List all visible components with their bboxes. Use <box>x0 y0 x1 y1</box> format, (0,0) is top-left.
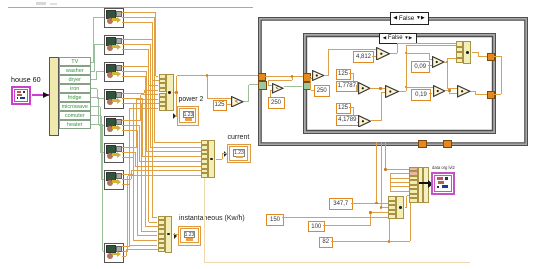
wire 250 to comparison outer <box>270 90 271 97</box>
junction drop 2 <box>380 206 383 209</box>
build array 4 <box>388 196 405 219</box>
wire appliance microwave to subVI 6 <box>91 106 101 107</box>
wire cluster house to appliance list <box>32 94 49 96</box>
numeric constant 100 <box>308 221 325 232</box>
wire instantaneous subVI 1 to build array 3 <box>122 22 153 23</box>
wire add E rising trunk <box>399 91 407 92</box>
wire divide A to multiply B <box>324 75 329 76</box>
subVI house 60 label <box>11 76 41 84</box>
wire 347,7 to build array 4 <box>351 203 388 204</box>
junction 82 wire <box>388 240 391 243</box>
subVI appliance model 1 <box>104 8 124 28</box>
case selector label outer False <box>390 12 429 25</box>
comparison function less than <box>231 96 244 108</box>
wire tunnel to divide A <box>309 76 311 77</box>
wire power subVI 6 to build array 1 <box>122 147 137 148</box>
wire instantaneous subVI 5 to build array 3 <box>122 130 137 131</box>
numeric constant 4,1789 <box>336 115 360 127</box>
label instantaneous <box>179 215 245 223</box>
label current <box>228 134 250 142</box>
junction E trunk lower <box>405 86 408 89</box>
wire 82 branch to build array 4 <box>389 219 390 241</box>
wire G junction down to add I <box>447 62 448 89</box>
subVI appliance model 3 <box>104 62 124 82</box>
junction C output <box>379 87 382 90</box>
subVI appliance model 6 <box>104 143 124 163</box>
wire 4,1789 to multiply D <box>356 122 359 123</box>
wire build array 3 to indicator <box>173 234 178 235</box>
wire power subVI 7 to build array 1 <box>122 174 133 175</box>
build array 1 power <box>159 74 175 111</box>
wire current subVI 6 to build array 2 <box>122 152 135 153</box>
toolbar icon smudge <box>36 2 46 5</box>
wire trunk to multiply G <box>406 53 429 54</box>
label power 2 <box>179 96 204 104</box>
string constant microwave <box>59 102 91 111</box>
wire power subVI 1 to build array 1 <box>122 12 156 13</box>
selector terminal outer case <box>258 81 267 90</box>
tunnel build array F out <box>487 53 496 62</box>
wire case bottom drop 2 <box>381 142 382 208</box>
wire 125 to multiply C <box>349 73 353 74</box>
numeric constant 0,19 <box>411 89 431 102</box>
string constant TV <box>59 57 91 66</box>
wire 1,7787 to multiply C <box>355 85 358 86</box>
add function E <box>385 85 399 98</box>
junction E trunk upper <box>405 52 408 55</box>
string constant comuter <box>59 111 91 120</box>
wire multiply B to build array F <box>390 53 397 54</box>
numeric constant 82 <box>319 237 334 248</box>
wire tunnel to inner case <box>265 76 303 77</box>
junction H output <box>448 89 451 92</box>
wire current subVI 5 to build array 2 <box>122 125 139 126</box>
wire instantaneous subVI 2 to build array 3 <box>122 49 149 50</box>
numeric constant 4,812 <box>353 51 374 63</box>
subVI appliance model 8 <box>104 243 124 263</box>
numeric constant 150 <box>266 214 284 226</box>
comparison function outer case <box>272 83 284 94</box>
toolbar edge line <box>8 7 253 9</box>
multiply function C <box>358 82 371 95</box>
wire power subVI 5 to build array 1 <box>122 120 141 121</box>
build array 3 instantaneous <box>158 216 173 253</box>
subVI appliance model 2 <box>104 35 124 55</box>
junction 100 wire <box>369 211 372 214</box>
junction G output <box>446 61 449 64</box>
subVI data org lvl2 <box>431 172 455 195</box>
wire comparison to inner selector <box>284 86 303 87</box>
tunnel power into outer case <box>258 73 267 82</box>
wire appliance comuter to subVI 7 <box>91 115 102 116</box>
wire add I to tunnel <box>471 91 476 92</box>
arrow bundle to subVI <box>419 182 428 184</box>
wire appliance iron to subVI 4 <box>91 88 98 89</box>
wire build array 1 output <box>174 92 177 93</box>
wire appliance washer to subVI 2 <box>91 71 95 72</box>
wire instantaneous subVI 4 to build array 3 <box>122 103 141 104</box>
wire appliance dryer to subVI 3 <box>91 79 97 80</box>
wire power subVI 8 to build array 1 <box>122 246 129 247</box>
tunnel case bottom 2 <box>443 140 453 149</box>
wire stubs into bundle <box>390 174 391 192</box>
wire trunk to multiply H <box>406 87 433 88</box>
wire power subVI 4 to build array 1 <box>122 93 144 94</box>
wire instantaneous subVI 8 to build array 3 <box>122 256 126 257</box>
wire case bottom drop 3 <box>385 142 386 170</box>
svg-text:<: < <box>276 86 279 92</box>
wire 100 to build array 4 <box>323 225 371 226</box>
wire 250 to divide A <box>311 90 314 91</box>
numeric constant 0,09 <box>411 61 431 73</box>
wire power subVI 3 to build array 1 <box>122 66 148 67</box>
wire case bottom drop 1 <box>376 142 377 204</box>
divide function A <box>312 70 325 81</box>
subVI appliance model 4 <box>104 89 124 109</box>
wire multiply H to add I <box>445 90 450 91</box>
build array F <box>456 41 472 64</box>
wire multiply D to add E <box>371 120 382 121</box>
wire multiply C to add E <box>370 88 385 89</box>
add function I <box>457 85 471 98</box>
tunnel power into inner case <box>303 73 312 82</box>
wire appliance heater to subVI 8 <box>91 124 103 125</box>
numeric constant 125 c <box>336 103 351 114</box>
wire current subVI 8 to build array 2 <box>122 251 128 252</box>
bundle cluster <box>409 167 429 203</box>
wire branch to comparison in outer case <box>292 77 293 81</box>
wire instantaneous subVI 7 to build array 3 <box>122 184 130 185</box>
wire 150 to build array 4 <box>282 217 388 218</box>
junction build array 1 output <box>175 91 178 94</box>
multiply function H <box>433 85 446 97</box>
string constant heater <box>59 120 91 129</box>
indicator current <box>227 144 251 163</box>
numeric constant 250 inner <box>314 85 331 97</box>
wire build array F to tunnel <box>472 52 479 53</box>
wire power subVI 2 to build array 1 <box>122 39 152 40</box>
junction drop 3 <box>384 168 387 171</box>
junction 347,7 wire <box>375 202 378 205</box>
array index column <box>49 57 60 136</box>
wire joining right tunnels <box>494 56 501 57</box>
svg-text:<: < <box>235 99 238 105</box>
junction inside outer case <box>291 75 294 78</box>
wire 0,09 to multiply G <box>428 65 432 66</box>
wire current subVI 2 to build array 2 <box>122 44 150 45</box>
subVI appliance model 7 <box>104 170 124 190</box>
case selector label inner False <box>379 33 417 45</box>
wire junction to comparison <box>207 76 208 99</box>
string constant fridge <box>59 93 91 102</box>
subVI house 60 <box>11 86 31 105</box>
indicator instantaneous <box>178 226 202 246</box>
label data org lvl2 <box>432 165 455 170</box>
selector terminal inner case <box>303 82 311 91</box>
string constant washer <box>59 66 91 75</box>
wire multiply G output <box>445 62 448 63</box>
wire instantaneous subVI 6 to build array 3 <box>122 157 134 158</box>
wire current subVI 1 to build array 2 <box>122 17 154 18</box>
tunnel case bottom 1 <box>418 140 428 149</box>
numeric constant 250 outer <box>268 97 285 109</box>
wire appliance TV to subVI 1 <box>91 62 94 63</box>
numeric constant 125 b <box>336 69 351 80</box>
junction on power wire <box>206 74 209 77</box>
wire drop2 to build array 4 <box>381 207 388 208</box>
case structure inner <box>303 33 496 134</box>
wire current subVI 4 to build array 2 <box>122 98 143 99</box>
string constant iron <box>59 84 91 93</box>
wire 125 to comparison <box>226 104 231 105</box>
numeric constant 1,7787 <box>336 81 359 92</box>
subVI appliance model 5 <box>104 116 124 136</box>
wire comparison to case selector <box>244 101 249 102</box>
wire 0,19 to multiply H <box>429 93 432 94</box>
multiply function B <box>376 47 390 61</box>
string constant dryer <box>59 75 91 84</box>
multiply function G <box>432 56 445 68</box>
wire build array 4 to bundle <box>405 207 407 208</box>
numeric constant 347,7 <box>329 198 354 211</box>
case structure outer <box>258 17 528 147</box>
wire appliance fridge to subVI 5 <box>91 97 99 98</box>
tunnel add I out <box>487 91 496 100</box>
wire 125 to multiply D <box>349 107 353 108</box>
wire 82 to bundle <box>331 241 410 242</box>
build array 2 current <box>201 140 216 178</box>
multiply function D <box>358 115 371 128</box>
wire build array 2 to indicator <box>216 159 223 160</box>
wire instantaneous subVI 3 to build array 3 <box>122 76 145 77</box>
arrowhead on cluster wire <box>43 92 49 98</box>
wire to power 2 indicator <box>176 93 177 117</box>
numeric constant 125 <box>213 100 227 111</box>
indicator power 2 <box>177 106 199 126</box>
wire faint long branch down <box>204 178 205 262</box>
wire current subVI 7 to build array 2 <box>122 179 131 180</box>
wire 4,812 to multiply B <box>372 56 376 57</box>
wire current subVI 3 to build array 2 <box>122 71 147 72</box>
